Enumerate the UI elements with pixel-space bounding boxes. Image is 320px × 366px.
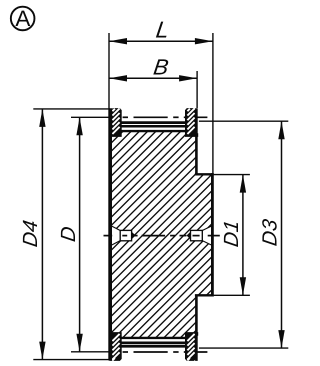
D3 dimension line	[281, 121, 283, 348]
dimension B	[109, 54, 197, 108]
B dimension line	[109, 77, 197, 79]
variant marker circle A	[11, 6, 35, 31]
pitch circle line top (dash-dot)	[123, 116, 208, 118]
L dimension line	[109, 40, 213, 42]
body right outer face upper	[195, 108, 198, 174]
left center hole drill cone	[132, 232, 136, 240]
flange top-left	[109, 108, 122, 137]
right center hole countersink	[202, 225, 213, 246]
D3 arrowhead top	[278, 121, 284, 139]
L arrowhead right	[195, 38, 213, 44]
right center hole drill cone	[187, 232, 191, 240]
D1 dimension line	[242, 175, 244, 296]
D arrowhead bottom	[76, 334, 82, 352]
D1 extension line bottom	[214, 294, 250, 296]
right center hole pilot bore	[191, 230, 203, 240]
flange bottom-left	[109, 332, 122, 361]
dimension D1	[214, 175, 250, 296]
D4 arrowhead bottom	[39, 342, 45, 360]
tooth root line bottom	[120, 337, 188, 339]
pitch circle line bottom (dash-dot)	[123, 351, 208, 353]
hub bottom step	[195, 294, 214, 296]
toothed rim inner line top	[121, 125, 187, 128]
D1 arrowhead top	[240, 175, 246, 193]
L extension line right	[212, 33, 214, 174]
svg-text:A: A	[15, 6, 30, 31]
toothed rim outer surface bottom	[121, 345, 187, 348]
D4 dimension line	[41, 109, 43, 360]
B extension line right	[196, 71, 198, 108]
B arrowhead left	[109, 75, 127, 81]
dimension D3	[199, 121, 288, 348]
svg-text:D3: D3	[259, 217, 282, 247]
left center hole pilot bore	[120, 230, 131, 240]
dimension D4	[19, 109, 110, 360]
dimension L	[109, 16, 213, 360]
toothed rim outer surface top	[121, 121, 187, 124]
left center hole countersink	[110, 225, 120, 246]
D3 extension line top	[199, 120, 288, 122]
B arrowhead right	[179, 75, 197, 81]
D3 arrowhead bottom	[278, 330, 284, 348]
tooth root line top	[120, 130, 188, 132]
D4 arrowhead top	[39, 109, 45, 127]
toothed rim inner line bottom	[121, 341, 187, 344]
svg-text:D4: D4	[19, 219, 42, 248]
body right outer face lower	[195, 295, 198, 361]
D4 extension line top	[33, 108, 110, 110]
L arrowhead left	[109, 38, 127, 44]
pulley body cross-section hatching	[0, 81, 320, 366]
axis centerline (dash-dot)	[104, 235, 220, 237]
svg-text:D1: D1	[220, 219, 243, 248]
L extension line left	[108, 33, 110, 361]
D4 extension line bottom	[33, 359, 110, 361]
D dimension line	[79, 117, 81, 351]
D extension line top	[71, 116, 109, 118]
dimension D	[57, 117, 109, 351]
D3 extension line bottom	[199, 347, 288, 349]
hub right face	[211, 173, 214, 296]
D1 extension line top	[214, 174, 250, 176]
body left outer face	[109, 108, 112, 361]
D extension line bottom	[71, 351, 109, 353]
flange bottom-right	[185, 332, 198, 361]
flange top-right	[185, 108, 198, 137]
hub top step	[195, 173, 214, 175]
D1 arrowhead bottom	[240, 277, 246, 295]
D arrowhead top	[76, 117, 82, 135]
